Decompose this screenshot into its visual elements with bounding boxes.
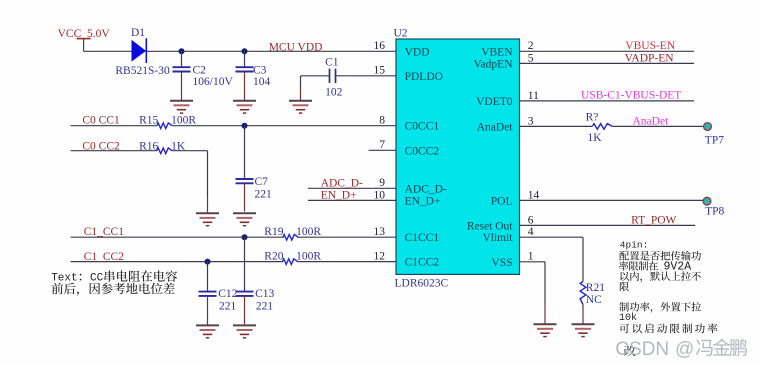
svg-text:10k: 10k [619,312,637,324]
svg-text:6: 6 [528,214,534,226]
svg-text:221: 221 [256,300,274,312]
svg-text:C12: C12 [218,288,237,300]
svg-text:@: @ [675,339,694,360]
svg-text:NC: NC [586,294,602,306]
svg-text:C0CC1: C0CC1 [405,121,440,133]
svg-text:C0 CC1: C0 CC1 [82,115,120,127]
svg-text:C3: C3 [253,65,267,77]
svg-text:VDD: VDD [405,46,430,58]
svg-text:1K: 1K [588,132,603,144]
svg-text:R19: R19 [264,226,283,238]
svg-text:11: 11 [528,90,539,102]
svg-text:VADP-EN: VADP-EN [625,52,675,64]
svg-text:C1_CC1: C1_CC1 [84,226,125,238]
svg-text:Reset Out: Reset Out [467,220,513,232]
svg-text:C1CC1: C1CC1 [405,232,440,244]
svg-text:8: 8 [379,115,385,127]
svg-text:VBEN: VBEN [481,46,513,58]
svg-text:AnaDet: AnaDet [633,115,670,127]
svg-text:VBUS-EN: VBUS-EN [625,40,676,52]
svg-text:106/10V: 106/10V [193,76,234,88]
svg-text:4: 4 [528,226,534,238]
svg-text:14: 14 [528,189,540,201]
svg-text:C0CC2: C0CC2 [405,145,440,157]
svg-text:9V2A: 9V2A [664,261,692,274]
svg-text:CC: CC [90,273,104,285]
svg-text:VDET0: VDET0 [476,96,513,108]
svg-text:C2: C2 [193,65,207,77]
svg-text:16: 16 [374,40,386,52]
svg-text:13: 13 [374,226,386,238]
svg-text:RT_POW: RT_POW [631,214,676,226]
svg-text:C1: C1 [325,56,339,68]
svg-text:Vlimit: Vlimit [482,232,513,244]
svg-text:POL: POL [491,195,513,207]
svg-text:3: 3 [528,115,534,127]
svg-text:VSS: VSS [491,257,512,269]
svg-text:7: 7 [379,139,385,151]
svg-text:2: 2 [528,40,534,52]
svg-text:1K: 1K [171,140,186,152]
svg-text:221: 221 [219,300,237,312]
svg-text:R21: R21 [586,282,605,294]
svg-text:10: 10 [374,189,386,201]
svg-text:ADC_D-: ADC_D- [321,177,363,189]
svg-text:100R: 100R [296,251,321,263]
svg-text:EN_D+: EN_D+ [405,195,441,207]
svg-text:Text: Text [51,273,77,285]
svg-text:1: 1 [528,251,534,263]
svg-text:C1_CC2: C1_CC2 [84,251,125,263]
svg-text:12: 12 [374,251,386,263]
svg-text:TP8: TP8 [705,206,724,218]
svg-text:D1: D1 [131,27,145,39]
svg-text:R?: R? [586,112,599,124]
svg-text:CSDN: CSDN [615,339,669,360]
svg-text:100R: 100R [171,114,196,126]
svg-text:C0 CC2: C0 CC2 [82,140,120,152]
svg-text:MCU VDD: MCU VDD [269,41,323,53]
svg-text:4pin:: 4pin: [620,239,649,250]
svg-text:221: 221 [255,189,273,201]
svg-text:VCC_5.0V: VCC_5.0V [58,28,111,40]
svg-text:9: 9 [379,177,385,189]
svg-text:100R: 100R [296,226,321,238]
svg-text:AnaDet: AnaDet [477,121,514,133]
svg-text:RB521S-30: RB521S-30 [115,65,170,77]
svg-text:VadpEN: VadpEN [474,58,514,70]
svg-text:USB-C1-VBUS-DET: USB-C1-VBUS-DET [581,90,681,102]
svg-text:104: 104 [253,76,271,88]
svg-text:R16: R16 [139,140,158,152]
svg-text:102: 102 [325,86,343,98]
svg-text:EN_D+: EN_D+ [321,190,357,202]
svg-text:C13: C13 [255,288,274,300]
svg-text:U2: U2 [394,28,408,40]
svg-text:R15: R15 [139,114,158,126]
svg-text:PDLDO: PDLDO [405,71,443,83]
svg-text:ADC_D-: ADC_D- [405,183,447,195]
svg-text:C1CC2: C1CC2 [405,257,440,269]
svg-text:C7: C7 [255,176,269,188]
svg-text:15: 15 [374,65,386,77]
svg-text:R20: R20 [264,251,283,263]
svg-text:TP7: TP7 [705,135,724,147]
svg-text:5: 5 [528,52,534,64]
svg-text:LDR6023C: LDR6023C [395,278,449,290]
